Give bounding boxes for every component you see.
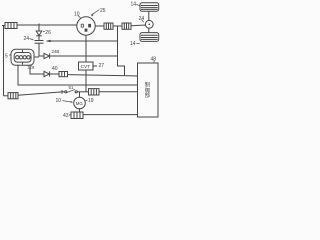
label 19 dash [86,99,88,101]
svg-text:CVT: CVT [81,64,91,69]
label 24 leader [30,39,34,41]
wheel rear (bottom) [140,33,159,42]
fuse F4 on row C [89,89,100,95]
diode D1 row 24B [39,53,118,58]
wire coupling1 to coupling2 with junction [113,25,122,27]
label 12a leader [29,69,32,71]
wire encoder to control box [83,114,138,116]
svg-text:10: 10 [56,98,62,104]
arrow wire row to junction column [47,40,118,42]
battery bottom tap 12a to row A [30,65,44,74]
label 48 tick [153,61,155,64]
junction column from couplings [118,26,125,75]
svg-text:19: 19 [88,98,94,104]
svg-text:部: 部 [145,91,150,99]
capacitor 24 [35,41,44,57]
MG stub to row C [79,92,81,97]
label 14 top arrow [136,5,139,6]
svg-text:24: 24 [139,16,145,22]
wire row A to control box [68,75,138,76]
wire top horizontal to engine [17,24,77,26]
label 10 leader [78,16,81,19]
row C wire from bottom fuse [18,92,62,95]
motor-generator MG [74,97,86,109]
label 14 bottom arrow [136,42,139,44]
controller box 48 [138,63,159,117]
ignition switch S1 top-left [2,23,17,29]
axle shaft lower [148,28,150,32]
coupling J2 [122,23,131,29]
svg-text:27: 27 [99,63,105,69]
battery 5 [11,49,34,65]
coupling J1 [104,23,113,29]
node zener tap on top wire [38,24,40,28]
axle shaft upper [148,11,150,20]
svg-text:14: 14 [131,2,137,8]
label 24 leader at differential [142,20,144,23]
svg-text:24: 24 [24,36,30,42]
label 5 leader [9,54,11,56]
svg-text:48: 48 [151,56,157,62]
svg-text:51: 51 [69,85,74,90]
bottom fuse F3 [4,93,19,99]
label 10 arrow left of MG [63,101,73,103]
label 26 dash [43,31,45,33]
wire coupling2 to differential [131,24,146,27]
svg-text:24B: 24B [52,49,60,54]
svg-text:12a: 12a [27,64,35,69]
engine circle 10 [77,17,95,35]
svg-text:5: 5 [5,53,8,59]
zener diode 26 [36,31,42,41]
wire row C to control box [99,91,138,93]
encoder EP box 43 [71,112,83,119]
CVT bottom feed [85,70,87,92]
wire left rail from switch down left edge [3,26,5,96]
engine internal marks [81,24,90,31]
resistor 40 [59,72,68,77]
svg-text:43: 43 [63,113,69,119]
zener branch vertical [38,25,40,32]
CVT top feed from engine [85,35,87,62]
MG shaft to encoder [79,109,81,112]
svg-text:10: 10 [74,11,80,17]
battery bottom tap left to row B [18,65,138,85]
wire engine to coupling [95,25,104,27]
svg-text:26: 26 [45,30,51,36]
diode D2 row A [44,71,59,76]
CVT box [79,62,94,70]
switch contacts 51 on row C [62,89,89,93]
CVT right lead label 27 [92,65,97,67]
svg-text:14: 14 [130,41,136,47]
label 25 arrow [92,10,100,15]
wheel front (top) [140,3,159,11]
svg-text:MG: MG [76,101,84,106]
svg-text:40: 40 [52,66,58,72]
label 43 dash [69,114,71,116]
svg-text:25: 25 [100,8,106,14]
differential circle [145,20,153,28]
battery right tap to zener column [34,56,39,58]
